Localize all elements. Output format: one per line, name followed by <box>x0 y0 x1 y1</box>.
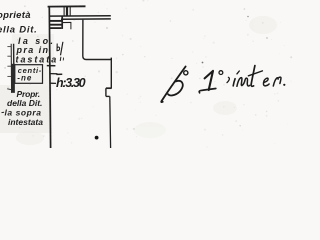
svg-text:intestata: intestata <box>8 117 43 127</box>
svg-text:ella Dit.: ella Dit. <box>0 24 38 35</box>
svg-text:oprietà: oprietà <box>0 10 31 21</box>
svg-text:della Dit.: della Dit. <box>7 98 42 108</box>
svg-text:h:3.30: h:3.30 <box>56 76 86 90</box>
svg-text:la sopra: la sopra <box>5 108 42 118</box>
svg-text:tastata: tastata <box>16 55 59 65</box>
svg-text:pra in: pra in <box>16 45 50 55</box>
svg-text:-ne: -ne <box>17 73 32 82</box>
